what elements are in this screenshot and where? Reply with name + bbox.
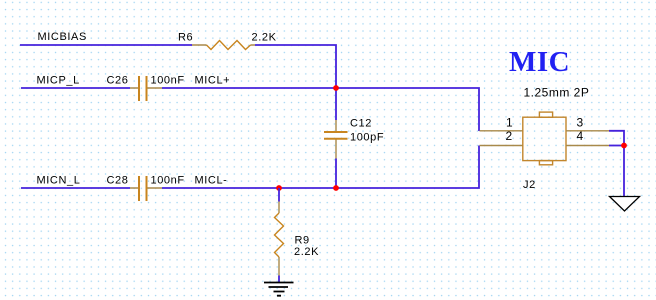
label C12: [350, 118, 372, 130]
svg-text:MICBIAS: MICBIAS: [38, 31, 87, 43]
junction MICL+ / C12 top: [333, 85, 339, 91]
svg-text:2: 2: [506, 129, 513, 143]
wire MICN_L left segment: [21, 187, 130, 189]
svg-text:C26: C26: [107, 75, 129, 87]
svg-text:J2: J2: [523, 179, 536, 191]
svg-text:R9: R9: [295, 235, 310, 247]
label R9: [295, 235, 310, 247]
svg-text:4: 4: [577, 129, 584, 143]
wire R9 bottom stub: [278, 276, 280, 283]
label C26: [107, 75, 129, 87]
label C28: [107, 175, 129, 187]
net label MICL+: [195, 75, 231, 87]
svg-text:C28: C28: [107, 175, 129, 187]
svg-text:100nF: 100nF: [151, 75, 185, 87]
svg-text:100nF: 100nF: [151, 175, 185, 187]
pin number 4: [577, 129, 584, 143]
svg-text:MICN_L: MICN_L: [37, 175, 81, 187]
svg-text:1.25mm 2P: 1.25mm 2P: [524, 86, 590, 100]
resistor R9: [275, 202, 284, 276]
label 2.2K (R6 value): [252, 32, 277, 44]
resistor R6: [192, 41, 255, 50]
net label MICL-: [195, 175, 228, 187]
svg-text:2.2K: 2.2K: [252, 32, 277, 44]
junction pin4 / ground wire: [621, 143, 627, 149]
label 2.2K (R9 value): [294, 246, 319, 258]
label 100nF (C28 value): [151, 175, 185, 187]
wire MICP_L left segment: [21, 87, 130, 89]
title MIC: [509, 46, 570, 78]
wire pin4 to junction: [609, 145, 624, 147]
junction MICL- / R9: [276, 185, 282, 191]
pin number 1: [506, 116, 513, 130]
label 100nF (C26 value): [151, 75, 185, 87]
pin number 3: [577, 116, 584, 130]
wire C12 bottom to MICL- line: [335, 159, 337, 189]
svg-text:3: 3: [577, 116, 584, 130]
ground (signal ground triangle) right: [610, 197, 640, 212]
wire MICL+ from C26 to right corner, down to pin1: [162, 88, 479, 131]
svg-text:C12: C12: [350, 118, 372, 130]
svg-text:MICP_L: MICP_L: [37, 75, 80, 87]
net label MICBIAS: [38, 31, 87, 43]
svg-text:100pF: 100pF: [350, 131, 384, 143]
label R6: [178, 32, 193, 44]
net label MICP_L: [37, 75, 80, 87]
capacitor C28: [130, 176, 162, 201]
capacitor C26: [130, 76, 162, 101]
pin 1 lead: [480, 130, 523, 132]
pin 2 lead: [480, 145, 523, 147]
svg-text:2.2K: 2.2K: [294, 246, 319, 258]
svg-text:R6: R6: [178, 32, 193, 44]
wire MICL- from C28 to right corner, up to pin2: [162, 146, 479, 189]
junction MICL- / C12 bottom: [333, 185, 339, 191]
label 1.25mm 2P: [524, 86, 590, 100]
wire R6 to corner down to MICL+ line: [255, 45, 336, 120]
svg-text:MICL-: MICL-: [195, 175, 228, 187]
svg-text:1: 1: [506, 116, 513, 130]
ground (earth) below R9: [264, 283, 294, 296]
net label MICN_L: [37, 175, 81, 187]
wire pin3 to right corner down to ground: [609, 131, 624, 197]
designator J2: [523, 179, 536, 191]
label 100pF (C12 value): [350, 131, 384, 143]
svg-text:MICL+: MICL+: [195, 75, 231, 87]
pin number 2: [506, 129, 513, 143]
pin 3 lead: [566, 130, 609, 132]
wire MICBIAS left segment: [20, 44, 192, 46]
capacitor C12: [324, 120, 348, 159]
wire R9 top stub: [278, 188, 280, 202]
connector J2: [480, 112, 610, 165]
svg-text:MIC: MIC: [509, 46, 570, 78]
pin 4 lead: [566, 145, 609, 147]
